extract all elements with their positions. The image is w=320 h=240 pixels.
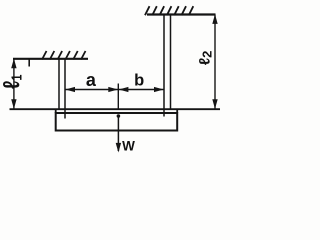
svg-text:b: b — [134, 72, 144, 90]
center tick — [117, 84, 119, 110]
arrowhead a right — [108, 87, 118, 92]
arrowhead l1 down — [11, 99, 16, 109]
svg-text:ℓ2: ℓ2 — [197, 51, 215, 66]
weight arrow W shaft — [117, 116, 119, 151]
svg-text:W: W — [122, 139, 135, 154]
dimension line l2 — [214, 15, 216, 109]
arrowhead W down — [116, 143, 121, 153]
left wire l1 — [59, 59, 65, 119]
right ceiling hatching — [145, 6, 193, 15]
reference line across bar top — [10, 108, 221, 110]
arrowhead b left — [119, 87, 129, 92]
dimension line a — [65, 89, 118, 91]
arrowhead a left — [65, 87, 75, 92]
right ceiling line — [147, 13, 216, 15]
svg-text:a: a — [86, 70, 97, 90]
arrowhead b right — [154, 87, 164, 92]
arrowhead l2 up — [212, 14, 217, 24]
arrowhead l1 up — [11, 59, 16, 69]
arrowhead l2 down — [212, 99, 217, 109]
left ceiling hatching — [42, 51, 86, 60]
left ceiling end tick — [28, 59, 30, 67]
bar right connector — [176, 109, 178, 113]
dimension line b — [118, 89, 164, 91]
bar left connector — [55, 109, 57, 113]
bar — [56, 113, 178, 131]
attachment dot — [117, 114, 121, 118]
left ceiling line — [13, 58, 88, 60]
right wire l2 — [164, 15, 171, 117]
dimension line l1 — [13, 59, 15, 109]
